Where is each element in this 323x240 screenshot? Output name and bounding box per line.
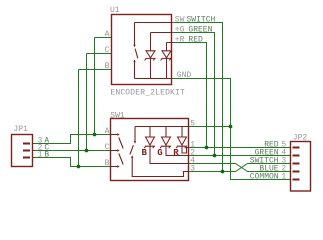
SW1 pin C stub [111,150,118,152]
svg-text:1: 1 [38,150,43,159]
svg-text:G: G [157,148,162,158]
U1 LED red diode D2 [161,43,172,79]
wire JP1 pin3 to SW1 pin A [33,135,111,144]
U1 internal ground rail [135,78,172,80]
SW1 push switch lower contact [131,155,133,158]
svg-text:ENCODER_2LEDKIT: ENCODER_2LEDKIT [110,89,185,98]
U1 internal switch lever [135,49,138,59]
SW1 pin A stub [111,134,118,136]
SW1 LED red diode [176,127,188,154]
op-amp U1 box outline [112,15,172,85]
wire net COMMON from U1 GND to JP2 pin1 [172,79,291,180]
SW1 encoder lever C-B [119,154,123,165]
SW1 internal top rail [135,126,189,128]
junction node C [85,149,89,153]
JP2 pin4 stub [293,155,300,157]
JP2 pin5 stub [293,147,300,149]
svg-text:R: R [173,148,179,158]
SW1 LED blue diode [144,127,188,164]
wire net GREEN from U1 +G pin [172,33,215,156]
SW1 LED green diode [160,127,188,156]
svg-text:SW1: SW1 [110,111,125,120]
transistor SW1 box outline [111,119,189,181]
svg-text:SW: SW [175,15,185,24]
svg-text:B: B [105,159,110,168]
svg-text:+R: +R [175,35,185,44]
SW1 push switch upper contact [134,127,136,142]
wire SW1 pin3 to JP2 pin3 SWITCH crossing up [189,164,291,172]
JP1 pin2 stub [23,150,30,152]
JP1 pin1 stub [23,157,30,159]
svg-text:B: B [44,150,49,159]
wire JP1 pin1 to SW1 pin B [33,158,111,167]
U1 LED green diode D1 [145,33,172,79]
wire SW1 pin5 to COMMON [189,126,231,128]
svg-text:A: A [105,30,110,39]
wire net B from U1 pin B [79,70,112,167]
U1 internal switch contacts [133,45,135,63]
svg-text:COMMON: COMMON [250,172,279,181]
svg-text:C: C [105,143,110,152]
wire net C from U1 pin C [87,54,112,151]
connector JP2 box outline [291,142,311,192]
wire net SWITCH from U1 SW pin [172,23,223,172]
junction node SWITCH [221,170,225,174]
SW1 push switch lever [130,145,134,154]
SW1 pin B stub [111,166,118,168]
JP2 pin2 stub [293,171,300,173]
svg-text:5: 5 [190,119,195,128]
svg-text:+G: +G [175,25,185,34]
U1 internal switch lower wire [134,60,136,79]
junction node B [77,165,81,169]
wire SW1 pin4 to JP2 pin2 BLUE crossing down [189,164,291,172]
svg-text:GND: GND [177,71,192,80]
junction node GREEN [213,154,217,158]
wire JP1 pin2 to SW1 pin C [33,150,111,152]
svg-text:GREEN: GREEN [188,25,212,34]
JP1 pin3 stub [23,143,30,145]
connector JP1 box outline [12,135,33,167]
JP2 pin1 stub [293,179,300,181]
wire net RED from U1 +R pin [172,43,207,148]
svg-text:3: 3 [190,164,195,173]
svg-text:C: C [105,46,110,55]
wire net A from U1 pin A [95,38,112,135]
svg-text:A: A [105,127,110,136]
svg-text:RED: RED [188,35,203,44]
junction node RED [205,146,209,150]
svg-text:JP1: JP1 [13,125,28,134]
svg-text:B: B [105,62,110,71]
SW1 encoder lever A-C [119,138,123,149]
svg-text:U1: U1 [110,6,120,15]
svg-text:1: 1 [281,172,286,181]
JP2 pin3 stub [293,163,300,165]
junction node COMMON [229,125,233,129]
wire SW1 pin1 RED row to JP2 pin5 [189,147,291,149]
U1 internal switch wire [135,23,172,47]
svg-text:B: B [142,148,148,158]
svg-text:JP2: JP2 [293,134,308,143]
wire SW1 pin2 GREEN row to JP2 pin4 [189,155,291,157]
svg-text:SWITCH: SWITCH [187,15,216,24]
junction node A [93,133,97,137]
